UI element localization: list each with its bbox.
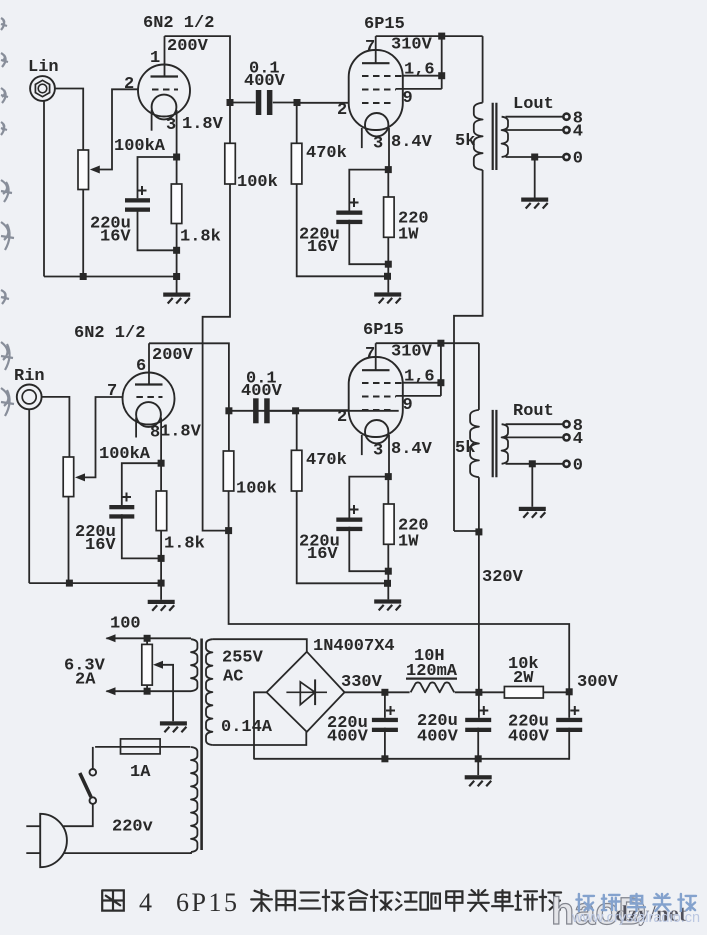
svg-text:3: 3 — [373, 135, 383, 154]
wire C2 bottom to cathode resistor bottom — [138, 208, 177, 251]
node C6/R7 bottom — [158, 555, 165, 562]
C9 polarity + — [479, 706, 488, 715]
node R4 line joins cathode ground — [384, 273, 391, 280]
V1b cathode dome — [136, 402, 161, 427]
svg-text:100k: 100k — [237, 173, 278, 192]
V2 cathode dome — [365, 113, 388, 136]
wire grid node to V3 g1 — [296, 409, 349, 411]
HV bottom wire to bridge — [212, 732, 306, 745]
wire cathode node to C4 top — [349, 170, 388, 211]
V3 g3 wire — [396, 395, 441, 397]
filter cap C10 220u/400V — [568, 692, 570, 718]
svg-text:16V: 16V — [100, 228, 131, 247]
wire switch to plug — [64, 804, 93, 826]
bridge rectifier 1N4007X4 diamond — [267, 652, 345, 732]
V3 g2 wire to plate bus — [403, 382, 441, 384]
V3 pin 7 lead — [375, 343, 377, 370]
svg-text:1.8V: 1.8V — [182, 115, 224, 134]
pot RP-R wiper arrow — [75, 473, 85, 481]
node plate bus / triode strap — [438, 33, 445, 40]
ground GND-L2 — [374, 292, 401, 296]
HV top wire to bridge — [212, 639, 306, 652]
OPT-L core — [492, 103, 494, 170]
terminal 8 ring (R) — [563, 421, 569, 427]
capacitor C6 220u/16V plates — [109, 505, 134, 509]
hum pot 100 body — [142, 644, 153, 685]
svg-text:4: 4 — [573, 430, 583, 449]
ground rail of input stage L — [44, 276, 177, 278]
svg-text:6P15: 6P15 — [176, 888, 239, 917]
OPT-R tap 8ohm wire — [506, 423, 564, 425]
V1a cathode dome — [152, 95, 177, 120]
C6 polarity + — [122, 493, 131, 502]
node 330V / C8 — [381, 689, 388, 696]
wire C5 to 6P15 grid node (R) — [270, 410, 296, 412]
svg-text:1,6: 1,6 — [404, 368, 435, 387]
bridge DC- wire to ground rail — [254, 692, 267, 759]
heater winding 6.3V — [191, 639, 197, 691]
hum pot leads — [146, 638, 148, 644]
wire R8 bottom to HT feed node — [228, 491, 230, 531]
ground GND-H (hum pot) — [160, 721, 187, 725]
svg-text:1: 1 — [150, 49, 160, 68]
svg-text:9: 9 — [403, 89, 413, 108]
svg-text:16V: 16V — [307, 545, 338, 564]
switch S1 lever — [80, 773, 91, 797]
ground GND-L1 — [163, 293, 190, 297]
svg-text:470k: 470k — [306, 451, 347, 470]
svg-text:3: 3 — [373, 442, 383, 461]
node strap/g2 — [438, 72, 445, 79]
pot RP-L wiper arrow — [90, 166, 100, 174]
svg-text:100k: 100k — [236, 480, 277, 499]
choke L1 10H 120mA — [385, 691, 410, 693]
wire joint from OPT-L feed — [454, 530, 479, 532]
wire OPT-R primary bottom to HT node — [478, 477, 480, 532]
C9 bottom lead — [477, 728, 479, 759]
node 6P15-R grid — [292, 407, 299, 414]
V3 plate bar — [362, 369, 390, 371]
svg-text:310V: 310V — [391, 36, 433, 55]
V2 g2 wire to plate bus — [403, 75, 442, 77]
svg-text:100kA: 100kA — [99, 445, 151, 464]
V2 g3 wire — [396, 88, 442, 90]
power switch S1 top contact — [90, 769, 97, 776]
terminal 0 ring (R) — [563, 461, 569, 467]
OPT-R secondary winding — [502, 424, 508, 464]
caption figure number char tu — [102, 890, 124, 910]
input jack J-Rin — [17, 385, 42, 410]
wire wiper to 6N2 grid (R) — [84, 397, 123, 477]
svg-text:2: 2 — [337, 101, 347, 120]
svg-text:400V: 400V — [417, 728, 459, 747]
svg-text:4: 4 — [139, 888, 152, 917]
resistor R10 220/1W body — [384, 504, 395, 544]
ground rail of input stage R — [29, 582, 161, 584]
switch wire up to fuse — [92, 747, 94, 769]
OPT-L secondary winding — [502, 117, 508, 157]
OPT-L tap 0 wire — [506, 156, 564, 158]
svg-text:1.8V: 1.8V — [160, 423, 202, 442]
V3 cathode node — [385, 473, 392, 480]
wire pot bottom to ground rail — [82, 190, 84, 277]
triode strap vertical — [441, 36, 443, 89]
svg-text:200V: 200V — [167, 37, 209, 56]
wire V1b plate to coupling node (R) — [149, 343, 229, 411]
ground GND-R1 — [148, 600, 175, 604]
V2 cathode lead pin 3 — [388, 128, 390, 170]
filter cap C8 220u/400V — [384, 692, 386, 718]
svg-text:100: 100 — [110, 615, 141, 634]
wire OPT-L primary bottom to HT 320V — [454, 170, 483, 531]
wire pot bottom to ground rail (R) — [68, 497, 70, 583]
tube V3 6P15 envelope — [349, 357, 403, 437]
V2 pin 7 lead — [375, 36, 377, 63]
wire cathode node to C6 top — [122, 463, 161, 505]
wiper to ground wire — [162, 665, 174, 722]
svg-text:4: 4 — [573, 123, 583, 142]
V3 screen grid dashes g2 — [362, 382, 403, 384]
V1b plate bar — [135, 383, 163, 385]
node heater bottom / hum pot — [144, 688, 151, 695]
V1a pin 1 lead — [164, 36, 166, 76]
svg-text:9: 9 — [403, 396, 413, 415]
left edge scan artifact glyph fragments — [1, 18, 7, 30]
V3 heater stub — [361, 435, 363, 455]
tube V2 6P15 envelope — [349, 50, 403, 130]
V2 cathode node — [385, 166, 392, 173]
V1a cathode lead pin 3 — [176, 110, 178, 157]
tube V1b 6N2 envelope — [123, 373, 175, 425]
plug prong bottom — [26, 852, 40, 854]
svg-text:5k: 5k — [455, 132, 475, 151]
terminal 4 ring (R) — [563, 434, 569, 440]
svg-text:3: 3 — [166, 116, 176, 135]
svg-text:www.crystalradio.cn: www.crystalradio.cn — [571, 910, 700, 926]
bridge diode symbol — [286, 691, 327, 693]
svg-text:16V: 16V — [85, 536, 116, 555]
OPT-L primary winding 5k — [474, 103, 483, 170]
svg-text:400V: 400V — [244, 72, 286, 91]
HV winding 255V AC — [206, 639, 212, 745]
wire cathode node to C7 top — [349, 477, 388, 518]
V1b heater stub — [135, 418, 137, 438]
OPT-R tap 0 wire — [506, 463, 564, 465]
V1a heater stub — [151, 110, 153, 131]
svg-text:Rout: Rout — [513, 402, 554, 421]
wire V1a plate to coupling node — [165, 36, 231, 102]
PSU ground rail — [254, 758, 569, 760]
capacitor C2 220u/16V plates — [125, 198, 150, 202]
node C2/R2 bottom — [173, 247, 180, 254]
svg-text:0.14A: 0.14A — [221, 718, 273, 737]
R3 top wire — [229, 103, 231, 144]
svg-text:1W: 1W — [398, 533, 419, 552]
plug prong top — [26, 825, 40, 827]
V2 control grid dashes g1 — [362, 102, 392, 104]
svg-text:1A: 1A — [130, 763, 151, 782]
svg-text:7: 7 — [107, 382, 117, 401]
R2 wires — [176, 157, 178, 184]
capacitor C5 0.1/400V plates — [253, 398, 259, 423]
wire grid node to V2 g1 — [297, 102, 349, 104]
svg-text:7: 7 — [365, 38, 375, 57]
svg-text:2A: 2A — [75, 671, 96, 690]
svg-text:400V: 400V — [508, 728, 550, 747]
OPT-R tap 4ohm wire — [504, 436, 564, 438]
power transformer core — [200, 639, 203, 851]
svg-text:310V: 310V — [391, 343, 433, 362]
wire 0 tap to ground — [534, 157, 536, 198]
wire cathode node to C2 top — [138, 157, 177, 198]
node plate bus / triode strap (R) — [437, 340, 444, 347]
wire Rin sleeve down to ground rail — [28, 409, 30, 583]
svg-text:Rin: Rin — [14, 367, 45, 386]
svg-text:1N4007X4: 1N4007X4 — [313, 637, 395, 656]
svg-text:8.4V: 8.4V — [391, 133, 433, 152]
capacitor C7 220u/16V plates — [336, 518, 362, 522]
R10 wires — [387, 477, 389, 504]
ground GND-L3 (speaker common) — [521, 198, 548, 202]
R4 wires to ground rail of output stage L — [296, 103, 298, 144]
node 6P15-L grid — [294, 99, 301, 106]
wire 0 tap to ground (R) — [531, 464, 533, 507]
svg-text:7: 7 — [365, 345, 375, 364]
fuse F1 1A — [95, 746, 190, 748]
svg-text:2: 2 — [124, 75, 134, 94]
R11 leads — [479, 691, 505, 693]
V1b cathode lead pin 8 — [160, 418, 162, 464]
HT riser 320V down to PSU — [478, 532, 480, 692]
svg-text:400V: 400V — [327, 728, 369, 747]
svg-text:8.4V: 8.4V — [391, 440, 433, 459]
node: V1a plate / C1 / R3 junction — [227, 99, 234, 106]
power switch S1 bottom contact — [90, 797, 97, 804]
svg-text:Lout: Lout — [513, 95, 554, 114]
heater bottom wire with arrow — [106, 690, 191, 692]
terminal 0 ring — [563, 154, 569, 160]
wire to ground symbol — [176, 277, 178, 293]
svg-text:470k: 470k — [306, 144, 347, 163]
svg-text:6P15: 6P15 — [364, 15, 405, 34]
OPT-L tap 8ohm wire — [506, 116, 564, 118]
wire plug to primary bottom — [65, 852, 192, 853]
C4 polarity + — [350, 198, 359, 207]
resistor R5 220/1W body — [384, 197, 395, 237]
OPT-L tap 4ohm wire — [504, 129, 564, 131]
C10 polarity + — [570, 706, 579, 715]
C2 polarity + — [138, 186, 147, 195]
svg-text:6N2 1/2: 6N2 1/2 — [74, 324, 145, 343]
C7 polarity + — [350, 505, 359, 514]
node rail/pot — [80, 273, 87, 280]
wire plate bus to OPT-R primary — [478, 343, 480, 410]
resistor R7 1.8k body — [156, 491, 167, 531]
V3 cathode dome — [365, 420, 388, 443]
caption chinese characters — [251, 890, 272, 911]
ground GND-R2 — [374, 599, 401, 603]
capacitor C1 0.1/400V plates — [256, 90, 261, 115]
V1b grid dashes — [136, 396, 162, 398]
svg-text:300V: 300V — [577, 673, 619, 692]
svg-text:1,6: 1,6 — [404, 61, 435, 80]
HT feed wire down and right to 300V node — [229, 531, 570, 692]
terminal 4 ring — [563, 127, 569, 133]
svg-text:AC: AC — [223, 668, 243, 687]
resistor R3 100k body (plate load L) — [225, 143, 236, 184]
svg-text:200V: 200V — [152, 346, 194, 365]
V3 control grid dashes g1 — [362, 409, 392, 411]
svg-text:400V: 400V — [241, 382, 283, 401]
triode strap vertical (R) — [440, 343, 442, 396]
V2 heater stub — [361, 128, 363, 148]
svg-text:1W: 1W — [398, 226, 419, 245]
watermark blue kuangshi shouyinji characters — [576, 894, 594, 911]
hum pot wiper arrow — [153, 661, 163, 669]
svg-text:5k: 5k — [455, 439, 475, 458]
wire Lin sleeve down to ground rail — [43, 100, 45, 276]
V3 cathode lead pin 3 — [388, 435, 390, 477]
node C9 ground rail — [475, 755, 482, 762]
svg-text:16V: 16V — [307, 238, 338, 257]
C10 bottom lead to ground rail corner — [567, 728, 570, 759]
heater top wire with arrow — [106, 637, 191, 639]
cathode node junction — [173, 154, 180, 161]
wire coupling node to cap C5 — [229, 410, 399, 412]
V1a plate bar — [151, 75, 179, 77]
svg-text:320V: 320V — [482, 568, 524, 587]
resistor R2 1.8k body — [171, 184, 182, 224]
svg-text:220v: 220v — [112, 818, 153, 837]
V1a grid dashes — [152, 89, 178, 91]
wire to ground symbol V2 — [387, 276, 389, 292]
svg-text:6P15: 6P15 — [363, 321, 404, 340]
cathode node junction (R) — [158, 460, 165, 467]
svg-text:8: 8 — [150, 424, 160, 443]
filter cap C9 220u/400V — [478, 692, 480, 718]
node C8 ground rail — [381, 755, 388, 762]
capacitor C4 220u/16V plates — [336, 211, 362, 215]
svg-text:Lin: Lin — [28, 58, 59, 77]
svg-text:6N2 1/2: 6N2 1/2 — [143, 14, 214, 33]
wire to ground symbol V3 — [387, 583, 389, 599]
node R9 line joins cathode ground (R) — [384, 580, 391, 587]
node both primaries join HT riser — [475, 528, 482, 535]
svg-text:0: 0 — [573, 456, 583, 475]
OPT-R primary winding 5k — [470, 410, 479, 477]
V2 screen grid dashes g2 — [362, 75, 403, 77]
node strap/g2 (R) — [437, 379, 444, 386]
OPT-R core — [492, 410, 494, 477]
wire wiper to 6N2 grid — [99, 89, 139, 169]
resistor R8 100k body (plate load R) — [223, 451, 234, 491]
V3 suppressor dashes g3 — [362, 396, 396, 398]
ground GND-PSU — [465, 775, 492, 779]
resistor R9 470k body (grid leak 6P15-R) — [291, 450, 302, 491]
node 0-tap ground — [531, 154, 538, 161]
volume pot RP-L 100kA body — [78, 150, 89, 190]
node rail/cathode leg (R) — [158, 580, 165, 587]
node V1b plate / C5 / R8 junction — [225, 407, 232, 414]
resistor R11 10k/2W body — [504, 687, 543, 699]
mains primary winding 220v — [191, 747, 197, 852]
svg-text:255V: 255V — [222, 649, 264, 668]
tube V1a 6N2 envelope — [138, 65, 190, 117]
wire top supply to coupling cap — [230, 102, 255, 104]
node 300V — [566, 688, 573, 695]
svg-text:100kA: 100kA — [114, 137, 166, 156]
node 0-tap ground (R) — [529, 460, 536, 467]
C8 polarity + — [386, 706, 395, 715]
svg-text:330V: 330V — [341, 673, 383, 692]
bridge DC+ wire 330V — [345, 691, 385, 693]
V2 plate bar — [362, 62, 390, 64]
node rail/cathode leg — [173, 273, 180, 280]
wire V2 plate top bus — [376, 35, 483, 37]
R7 wires — [160, 463, 162, 491]
wire Lin tip to volume pot top — [55, 89, 83, 151]
volume pot RP-R 100kA body — [63, 457, 73, 497]
wire plate bus to OPT-L primary — [482, 36, 484, 103]
wire C6 bottom to R7 bottom — [122, 514, 161, 558]
V1b pin 6 lead — [148, 343, 150, 384]
wire R3 bottom down with jog to HT feed — [203, 184, 230, 531]
svg-text:2: 2 — [337, 408, 347, 427]
node rail/pot (R) — [66, 580, 73, 587]
node heater top / hum pot — [144, 635, 151, 642]
wire to ground symbol (R input) — [160, 583, 162, 600]
terminal 8 ring — [563, 114, 569, 120]
svg-text:0: 0 — [573, 150, 583, 169]
wire C1 to 6P15 grid node — [273, 102, 297, 104]
wire to PSU ground symbol — [477, 759, 479, 775]
R8 top wire — [228, 411, 230, 451]
node HT feed join (both 100k) — [225, 527, 232, 534]
mains plug body — [40, 814, 67, 867]
wire C4 bottom to R5 bottom node — [349, 220, 388, 264]
C8 bottom lead — [384, 728, 386, 759]
wire Rin tip to volume pot top — [42, 397, 70, 457]
svg-text:2W: 2W — [513, 669, 534, 688]
R5 wires — [387, 170, 389, 197]
svg-text:6: 6 — [136, 357, 146, 376]
svg-text:1.8k: 1.8k — [180, 228, 221, 247]
wire V3 plate top bus — [376, 342, 479, 344]
R9 wires to output stage ground (R) — [296, 411, 298, 451]
node C7/R10 bottom — [385, 568, 392, 575]
ground GND-R3 (speaker common R) — [519, 507, 546, 511]
V2 suppressor dashes g3 — [362, 89, 396, 91]
wire C7 bottom to R10 bottom node — [349, 527, 388, 571]
node choke out 320V — [475, 689, 482, 696]
node C4/R5 bottom — [385, 261, 392, 268]
input jack J-Lin — [30, 76, 55, 101]
resistor R4 470k body (grid leak 6P15-L) — [291, 143, 302, 184]
svg-text:1.8k: 1.8k — [164, 535, 205, 554]
